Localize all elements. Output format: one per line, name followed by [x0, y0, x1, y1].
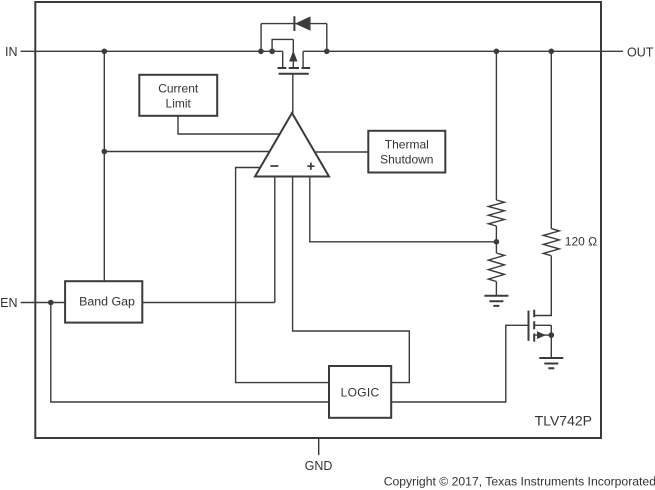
pass transistor Q1 body lead [292, 39, 294, 68]
junction: body tie [269, 49, 275, 55]
wire: error amplifier to thermal shutdown [315, 151, 368, 153]
wire: inverting input down [274, 177, 276, 303]
svg-text:Copyright © 2017, Texas Instru: Copyright © 2017, Texas Instruments Inco… [384, 475, 655, 489]
junction: diode left leg [258, 49, 264, 55]
logic box [329, 366, 391, 418]
pass transistor Q1 body arrow [289, 51, 297, 62]
svg-text:Thermal: Thermal [385, 137, 429, 151]
svg-text:GND: GND [305, 459, 333, 473]
wire: Q1 gate to error amplifier output [292, 74, 294, 113]
junction: feedback divider top [494, 49, 500, 55]
svg-text:Limit: Limit [166, 96, 192, 110]
wire: current limit to error amplifier [178, 116, 281, 134]
wire: OUT rail down to feedback resistor R1 [495, 51, 497, 200]
junction: Q2 source/body tie [549, 332, 555, 338]
wire: supply tap to error amplifier left edge [104, 151, 270, 153]
feedback resistor R1 [488, 200, 504, 226]
body diode D1 wire [261, 23, 327, 25]
band gap box [65, 281, 142, 322]
resistor 120 ohm [543, 229, 559, 256]
junction: diode right leg [324, 49, 330, 55]
current limit box [139, 75, 217, 116]
svg-text:Shutdown: Shutdown [380, 152, 433, 166]
svg-text:EN: EN [0, 296, 17, 310]
pass transistor Q1 gate plate [279, 73, 309, 75]
discharge transistor Q2 source arrow [537, 331, 546, 339]
wire: EN lead to band gap [21, 302, 66, 304]
discharge transistor Q2 (NMOS) gate bar [528, 311, 530, 341]
wire: diode left leg to IN rail [260, 24, 262, 52]
IC boundary box [35, 2, 601, 438]
discharge transistor Q2 channel segments [533, 310, 535, 342]
wire: band gap output to inverting input [142, 302, 274, 304]
wire: diode right leg to OUT rail [326, 24, 328, 52]
wire: EN to logic [51, 303, 329, 403]
wire: noninverting input to feedback node [310, 177, 497, 242]
wire: output rail and OUT lead [303, 50, 623, 52]
body diode D1 cathode bar [293, 16, 295, 31]
discharge transistor Q2 source stub [534, 334, 551, 336]
wire: R2 to ground [495, 282, 497, 296]
wire: body tie loop to IN rail [272, 39, 293, 51]
svg-text:IN: IN [5, 45, 18, 59]
svg-text:120 Ω: 120 Ω [565, 235, 597, 249]
wire: logic to discharge FET gate [391, 325, 528, 402]
svg-text:Band Gap: Band Gap [79, 295, 135, 309]
junction: EN branch [48, 300, 54, 306]
pass transistor Q1 channel segments [278, 67, 311, 69]
body diode D1 anode triangle [295, 16, 311, 30]
error amplifier U1 [255, 113, 329, 177]
junction: supply tap to error amplifier [102, 149, 108, 155]
wire: R1 to R2 [495, 226, 497, 253]
feedback resistor R2 [488, 253, 504, 282]
thermal shutdown box [368, 131, 445, 173]
ground (feedback divider) [484, 296, 508, 306]
wire: 120 ohm to Q2 drain [534, 256, 551, 316]
svg-text:TLV742P: TLV742P [535, 413, 592, 429]
wire: IN lead and input rail [21, 50, 283, 52]
wire: input rail branch down to band gap [103, 51, 105, 281]
noninverting input label + [307, 163, 314, 170]
pass transistor Q1 drain contact [302, 51, 304, 68]
wire: error amplifier output path to logic [293, 177, 410, 383]
svg-text:OUT: OUT [627, 46, 654, 60]
junction: input rail / band gap branch [102, 49, 108, 55]
wire: error amplifier left edge to logic [236, 168, 329, 383]
GND pin lead [318, 438, 320, 455]
svg-text:LOGIC: LOGIC [341, 386, 380, 400]
wire: OUT rail down to 120 ohm resistor [550, 51, 552, 228]
discharge transistor Q2 body stub [534, 325, 551, 358]
svg-text:Current: Current [158, 81, 199, 95]
pass transistor Q1 (PMOS) source contact [282, 51, 284, 68]
ground (discharge FET) [539, 358, 563, 368]
inverting input label − [270, 165, 278, 167]
junction: 120 ohm top [549, 49, 555, 55]
junction: feedback node [494, 239, 500, 245]
